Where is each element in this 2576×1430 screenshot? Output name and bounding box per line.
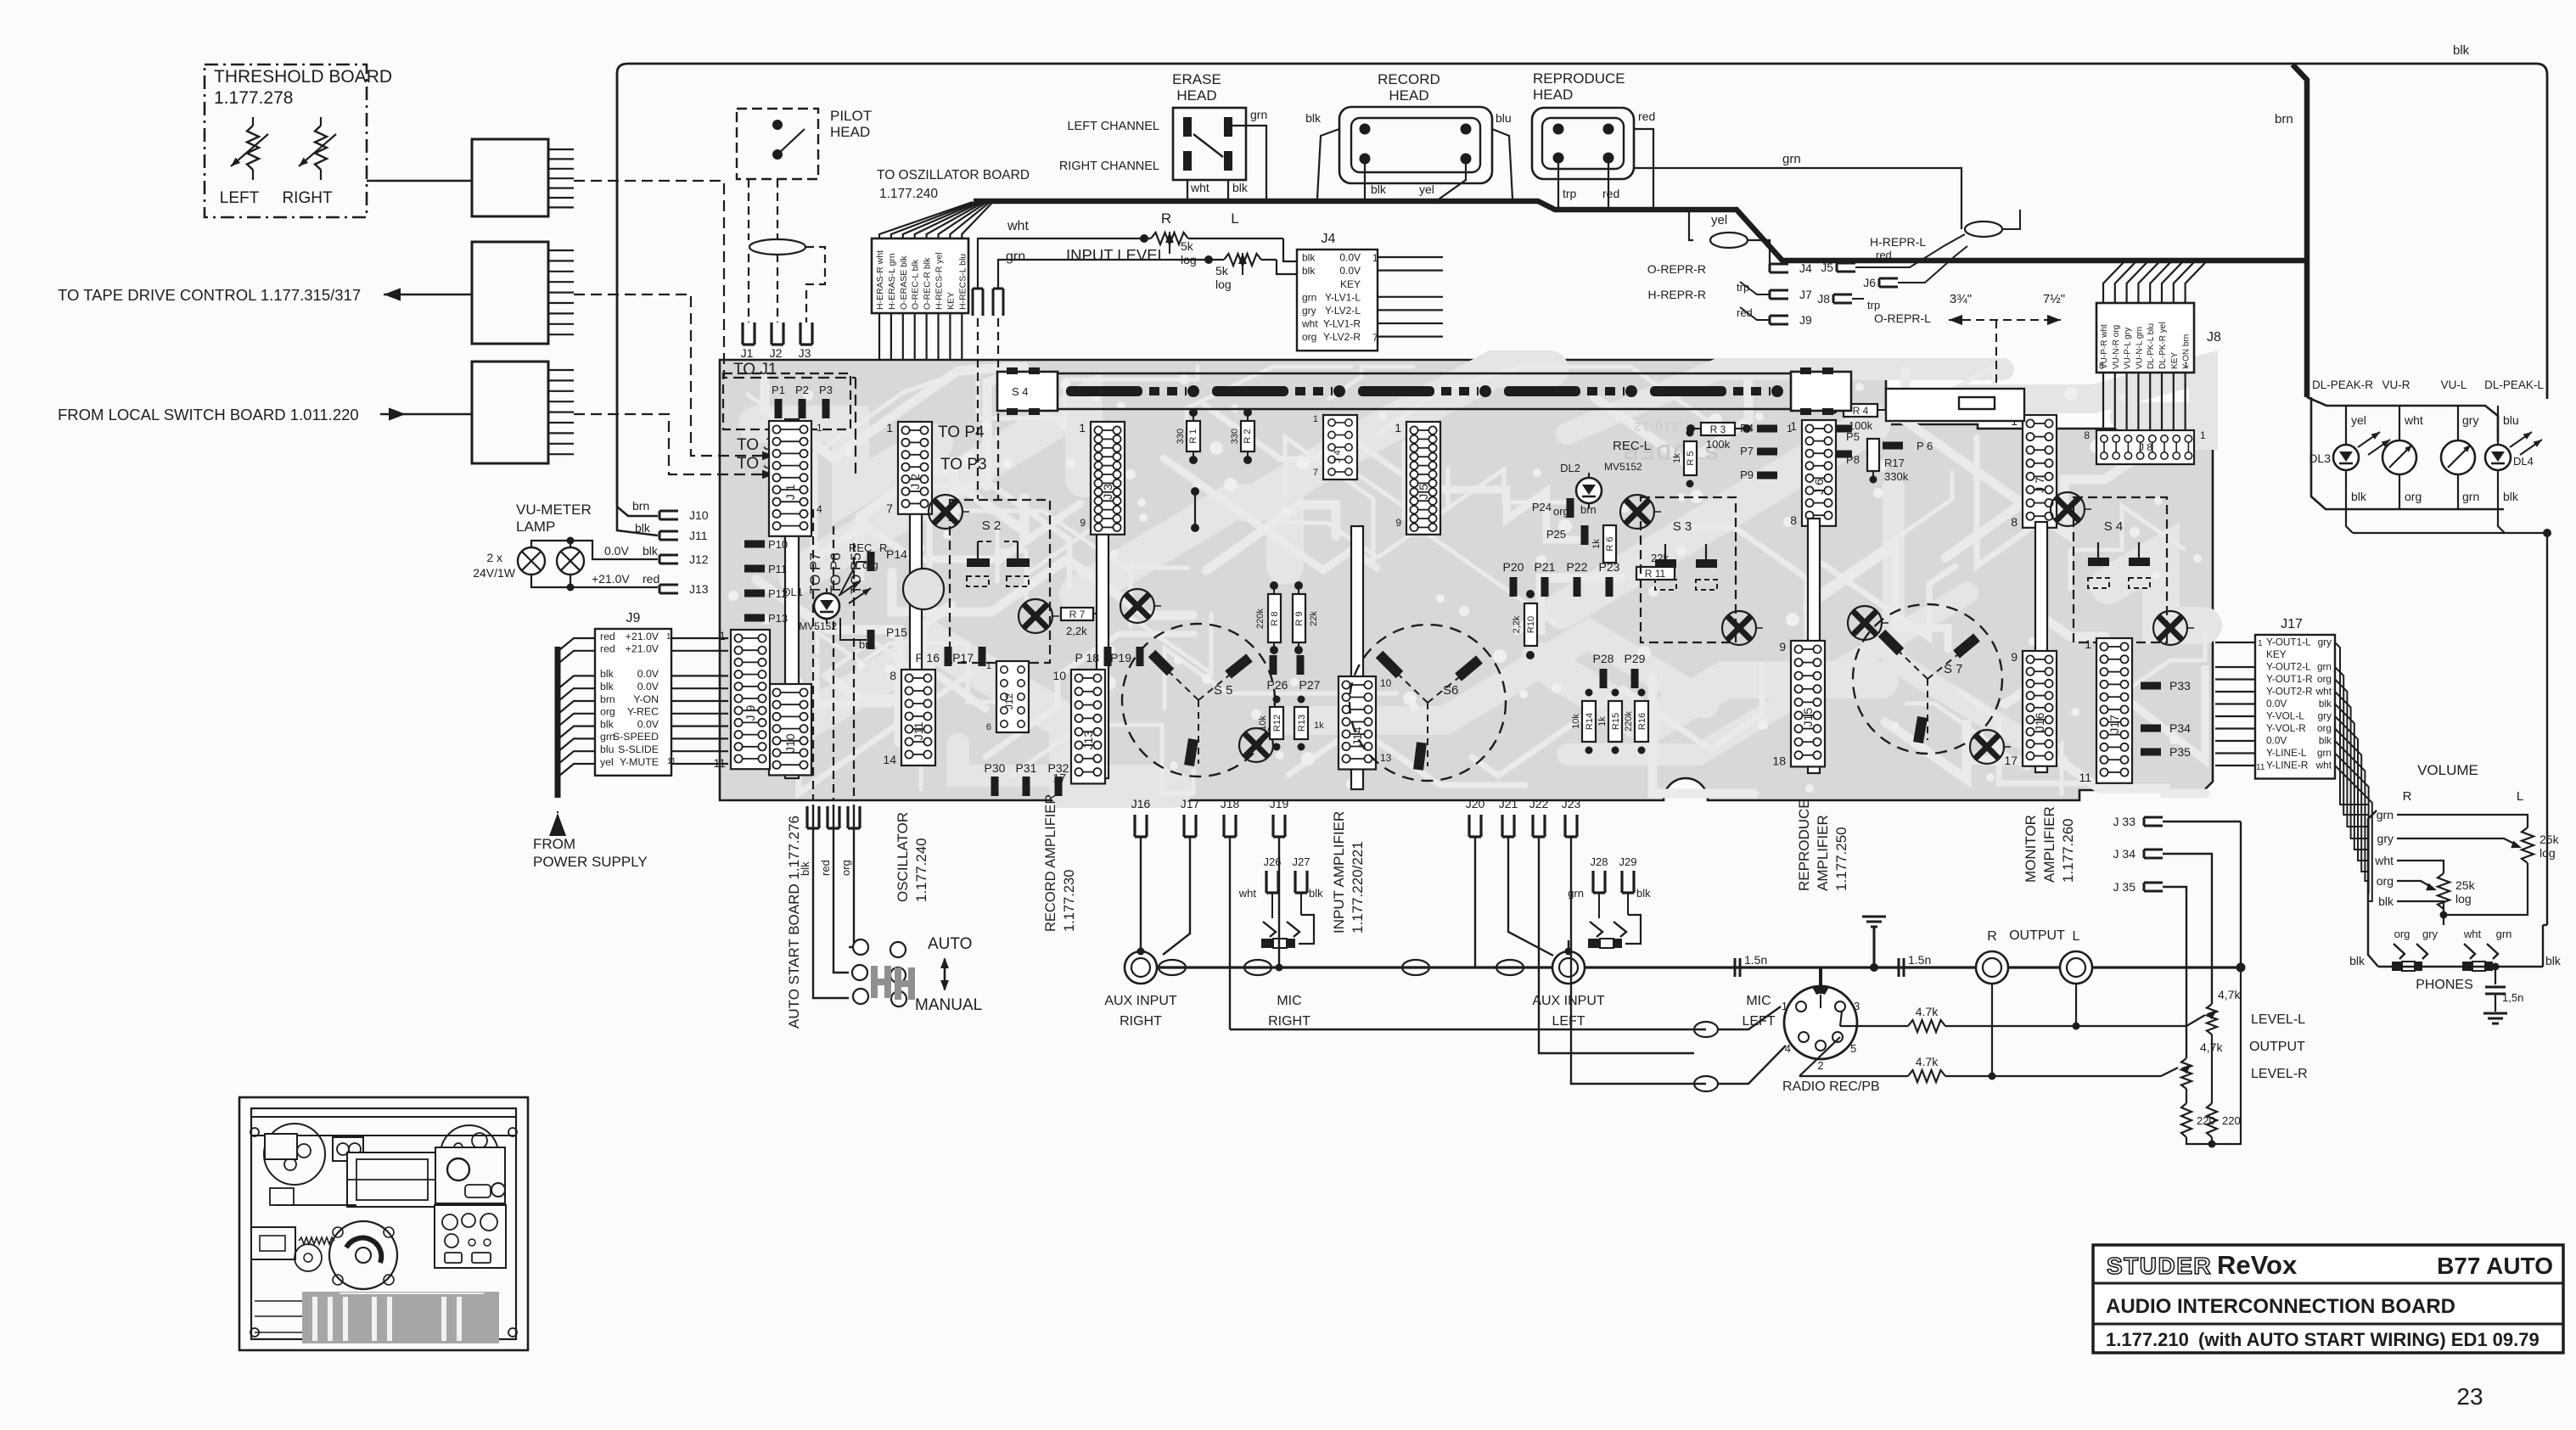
svg-text:H-RECS-R yel: H-RECS-R yel: [934, 252, 945, 310]
resistor R5: [1684, 441, 1697, 475]
svg-text:P30: P30: [985, 761, 1006, 775]
svg-text:red: red: [1737, 306, 1753, 319]
resistor 220 right: [2207, 1103, 2217, 1137]
svg-text:4.7k: 4.7k: [1916, 1005, 1939, 1018]
VU lamp left: [518, 547, 545, 575]
svg-text:J 33: J 33: [2113, 815, 2136, 828]
pad P15: [867, 630, 875, 649]
svg-text:MV5152: MV5152: [1604, 461, 1642, 473]
svg-text:Y-MUTE: Y-MUTE: [620, 756, 659, 768]
connector J14 strip: [1339, 676, 1376, 770]
LED DL3: [2345, 406, 2347, 444]
svg-text:RIGHT: RIGHT: [1268, 1014, 1310, 1029]
svg-text:J13: J13: [1081, 731, 1095, 750]
svg-text:P27: P27: [1299, 678, 1321, 692]
svg-text:REC-L: REC-L: [1613, 439, 1651, 453]
svg-text:J6: J6: [1863, 276, 1876, 289]
auto manual switch: [853, 939, 868, 955]
svg-text:org: org: [2394, 928, 2410, 940]
svg-text:H-ERAS-R wht: H-ERAS-R wht: [875, 250, 885, 310]
auto manual arrow: [944, 959, 946, 990]
screw monitor bottom: [2153, 611, 2187, 645]
stub J2: [772, 322, 783, 345]
svg-text:1: 1: [2085, 637, 2091, 651]
svg-text:LEVEL-R: LEVEL-R: [2251, 1067, 2308, 1081]
svg-text:blk: blk: [2349, 954, 2366, 967]
svg-text:VU-METER: VU-METER: [516, 502, 592, 518]
svg-text:P15: P15: [886, 625, 907, 639]
svg-text:1.177.278: 1.177.278: [214, 88, 293, 108]
THRESHOLD BOARD dash-dot box: [205, 64, 367, 217]
connector J4 dip: [1323, 415, 1357, 479]
svg-text:J 1: J 1: [783, 484, 797, 500]
svg-text:L: L: [1231, 210, 1238, 227]
connector J11 strip: [901, 670, 935, 765]
svg-text:LAMP: LAMP: [516, 519, 555, 535]
svg-text:1: 1: [1782, 1000, 1787, 1012]
jack AUX INPUT RIGHT: [1125, 951, 1157, 984]
svg-text:log: log: [2455, 892, 2472, 906]
meters frame wiring: [2307, 397, 2498, 441]
svg-text:1.177.210: 1.177.210: [2106, 1329, 2189, 1350]
svg-text:+21.0V: +21.0V: [626, 643, 659, 655]
svg-text:R 5: R 5: [1686, 451, 1696, 465]
dashed TO P4 line: [977, 318, 979, 499]
svg-text:1.177.220/221: 1.177.220/221: [1350, 841, 1366, 934]
svg-text:RIGHT: RIGHT: [1120, 1014, 1162, 1029]
svg-text:org: org: [2317, 673, 2332, 685]
svg-text:8: 8: [890, 669, 896, 682]
svg-text:VOLUME: VOLUME: [2417, 762, 2478, 778]
svg-text:O-REPR-L: O-REPR-L: [1874, 311, 1931, 325]
svg-text:AUTO START BOARD 1.177.276: AUTO START BOARD 1.177.276: [786, 816, 802, 1029]
svg-text:H-RECS-L blu: H-RECS-L blu: [957, 254, 968, 310]
inset right reel: [441, 1125, 498, 1183]
wires to radio connector: [1230, 1029, 1706, 1030]
svg-text:J 9: J 9: [744, 705, 757, 721]
svg-text:9: 9: [1080, 517, 1086, 529]
svg-text:P24: P24: [1532, 501, 1552, 513]
stub J12: [659, 555, 678, 564]
svg-text:MV5152: MV5152: [799, 620, 837, 632]
svg-text:LEVEL-L: LEVEL-L: [2251, 1012, 2305, 1027]
svg-text:J17: J17: [1181, 797, 1200, 810]
svg-text:5k: 5k: [1181, 239, 1194, 253]
svg-text:blk: blk: [2545, 954, 2562, 967]
wire J33 to output bus: [2163, 821, 2241, 822]
svg-text:log: log: [1215, 278, 1232, 291]
svg-text:+21.0V: +21.0V: [592, 572, 630, 586]
svg-text:INPUT LEVEL: INPUT LEVEL: [1066, 246, 1166, 264]
svg-text:S 5: S 5: [1214, 683, 1233, 698]
svg-text:J7: J7: [1799, 288, 1812, 301]
wire meters lower bus: [2353, 532, 2547, 534]
svg-text:P34: P34: [2169, 721, 2191, 735]
svg-text:5: 5: [1850, 1042, 1856, 1055]
dashed box S4 region: [2074, 497, 2167, 642]
svg-text:brn: brn: [600, 693, 615, 705]
svg-text:2: 2: [1817, 1059, 1823, 1072]
svg-text:HEAD: HEAD: [830, 124, 870, 140]
svg-text:J 35: J 35: [2113, 880, 2136, 894]
svg-text:TO J1: TO J1: [733, 361, 777, 379]
svg-text:S 3: S 3: [1673, 519, 1692, 534]
svg-text:(with AUTO START WIRING) ED1: (with AUTO START WIRING) ED1 09.79: [2198, 1329, 2540, 1350]
svg-text:O-ERASE blk: O-ERASE blk: [899, 255, 909, 310]
svg-text:Y-ON: Y-ON: [633, 693, 659, 705]
svg-text:0.0V: 0.0V: [637, 668, 659, 680]
bus to right corner: [2236, 963, 2246, 973]
svg-text:2 x: 2 x: [486, 551, 502, 564]
mechanical inset tape deck: [239, 1097, 528, 1350]
svg-text:O-REPR-R: O-REPR-R: [1647, 262, 1706, 276]
svg-text:P25: P25: [1546, 528, 1566, 541]
svg-text:J 4: J 4: [1333, 450, 1343, 463]
svg-text:P22: P22: [1567, 560, 1588, 574]
svg-text:J4: J4: [1799, 261, 1812, 275]
svg-text:J13: J13: [689, 582, 709, 596]
svg-text:grn: grn: [1250, 108, 1267, 121]
svg-text:R 3: R 3: [1710, 423, 1726, 435]
svg-text:R 6: R 6: [1605, 536, 1615, 551]
jumper wire under R1: [1191, 487, 1199, 496]
svg-text:J28: J28: [1591, 855, 1608, 868]
pad P13: [744, 614, 765, 622]
svg-text:HEAD: HEAD: [1533, 87, 1573, 103]
svg-text:blk: blk: [2453, 43, 2470, 58]
svg-text:0.0V: 0.0V: [2266, 698, 2287, 709]
stub J10: [659, 511, 678, 519]
svg-text:red: red: [600, 631, 615, 642]
svg-text:L: L: [2517, 789, 2523, 804]
svg-text:org: org: [1302, 331, 1316, 343]
ribbon column J5-J14: [1351, 526, 1363, 789]
svg-text:R 9: R 9: [1294, 611, 1305, 625]
svg-text:J17: J17: [2107, 715, 2121, 734]
svg-text:grn: grn: [2377, 808, 2394, 822]
svg-text:yel: yel: [1419, 182, 1434, 196]
svg-text:P 18: P 18: [1075, 651, 1099, 665]
svg-text:Y-VOL-R: Y-VOL-R: [2266, 722, 2306, 734]
svg-text:R16: R16: [1637, 713, 1647, 730]
svg-text:blk: blk: [2503, 490, 2519, 503]
svg-text:blk: blk: [600, 668, 615, 680]
dashed TO P3 line: [997, 318, 999, 499]
dashed box S2 region: [950, 500, 1050, 663]
svg-text:org: org: [2405, 490, 2422, 503]
meter VU-R: [2399, 406, 2400, 440]
svg-text:blk: blk: [799, 861, 811, 876]
connector J2 strip: [898, 422, 932, 514]
svg-text:J 7: J 7: [2033, 477, 2046, 493]
svg-text:S 4: S 4: [1012, 385, 1029, 398]
svg-text:gry: gry: [2318, 636, 2332, 648]
big hole oscillator: [903, 569, 944, 609]
inset right panel lower: [435, 1205, 506, 1268]
connector J1 strip: [785, 419, 799, 778]
connector J15 strip: [1791, 641, 1825, 766]
svg-text:VU-L: VU-L: [2441, 379, 2467, 391]
ribbon column J7-J16: [2035, 522, 2047, 772]
lamp wires: [531, 541, 658, 559]
svg-text:STUDER: STUDER: [2107, 1253, 2212, 1279]
svg-text:220: 220: [2222, 1114, 2241, 1127]
svg-text:11: 11: [2079, 771, 2091, 784]
svg-text:1: 1: [666, 632, 671, 642]
svg-text:J 5: J 5: [1417, 484, 1430, 500]
capacitor 1,5n phones: [2495, 967, 2496, 984]
inset head block: [333, 1137, 363, 1161]
svg-text:P19: P19: [1110, 651, 1131, 665]
svg-text:9: 9: [1395, 517, 1401, 529]
svg-text:P21: P21: [1535, 560, 1556, 574]
svg-text:KEY: KEY: [2266, 648, 2287, 660]
svg-text:7½": 7½": [2043, 292, 2065, 306]
svg-text:1: 1: [2200, 429, 2206, 441]
svg-text:J 8: J 8: [2139, 441, 2152, 453]
svg-text:R17: R17: [1884, 457, 1905, 469]
wires left stubs: [1740, 282, 1770, 294]
svg-text:17: 17: [1052, 771, 1066, 784]
svg-text:Y-LINE-R: Y-LINE-R: [2266, 760, 2308, 771]
pot volume R 25k: [2397, 861, 2444, 873]
ferrite beads on bus: [1159, 960, 1186, 975]
jack PHONES right: [2464, 944, 2498, 959]
svg-text:VU-N-L grn: VU-N-L grn: [2135, 327, 2144, 369]
wire heavy head cable bus: [974, 201, 2307, 261]
wire blk cable along top edge: [617, 64, 2547, 507]
connector J8 pcb block: [2096, 430, 2194, 464]
svg-text:J5: J5: [1821, 261, 1833, 274]
svg-text:gry: gry: [2422, 928, 2439, 940]
svg-text:J 2: J 2: [908, 474, 922, 490]
svg-text:FROM: FROM: [533, 836, 575, 852]
connector J3 strip: [1091, 422, 1125, 535]
resistors R8 R9: [1268, 594, 1281, 642]
svg-text:0.0V: 0.0V: [637, 681, 659, 693]
svg-text:org: org: [600, 706, 615, 718]
svg-text:RECORD AMPLIFIER: RECORD AMPLIFIER: [1043, 794, 1058, 932]
svg-text:blk: blk: [1371, 182, 1387, 196]
PILOT HEAD dashed box: [737, 109, 818, 179]
svg-text:11: 11: [2256, 763, 2265, 772]
svg-text:MANUAL: MANUAL: [915, 996, 982, 1014]
auto start wires blk red org: [813, 805, 849, 998]
svg-text:23: 23: [2456, 1383, 2483, 1410]
svg-text:AUDIO INTERCONNECTION BOARD: AUDIO INTERCONNECTION BOARD: [2106, 1295, 2455, 1318]
svg-text:blk: blk: [1302, 252, 1316, 264]
inset motor block: [347, 1152, 437, 1207]
svg-text:R 7: R 7: [1069, 608, 1086, 620]
svg-text:J16: J16: [1131, 797, 1151, 810]
svg-text:18: 18: [1772, 754, 1786, 767]
svg-text:blk: blk: [1302, 265, 1316, 277]
svg-text:TO TAPE DRIVE CONTROL 1.177.: TO TAPE DRIVE CONTROL 1.177.315/317: [58, 286, 361, 304]
svg-text:J11: J11: [912, 722, 925, 741]
svg-text:11: 11: [713, 756, 726, 770]
connector J7 strip: [2023, 415, 2057, 528]
inset pinch lever: [270, 1188, 294, 1205]
svg-text:Y-LV2-R: Y-LV2-R: [1323, 331, 1361, 343]
svg-text:220k: 220k: [1624, 711, 1634, 732]
svg-text:LEFT: LEFT: [220, 189, 260, 207]
svg-text:10k: 10k: [1258, 715, 1268, 731]
svg-text:REPRODUCE: REPRODUCE: [1533, 70, 1625, 87]
wire aux input right: [1140, 837, 1142, 951]
svg-text:4.7k: 4.7k: [1916, 1055, 1939, 1068]
svg-text:L: L: [2073, 929, 2080, 944]
stub J1: [743, 322, 755, 345]
svg-text:blk: blk: [635, 521, 651, 535]
photoresistor LEFT: [247, 126, 259, 170]
svg-text:S 4: S 4: [2104, 519, 2124, 534]
svg-text:1: 1: [817, 422, 822, 434]
wire aux input left: [1474, 837, 1476, 967]
svg-text:wht: wht: [1301, 318, 1318, 330]
wire J34: [2163, 854, 2212, 1004]
svg-text:J8: J8: [1817, 292, 1830, 306]
svg-text:22k: 22k: [1309, 611, 1319, 626]
svg-text:3¾": 3¾": [1950, 292, 1972, 306]
wire DIN pin5 to 4.7k lower: [1799, 1037, 1840, 1076]
svg-text:R14: R14: [1585, 713, 1595, 730]
svg-text:H-REPR-L: H-REPR-L: [1870, 235, 1926, 249]
svg-text:4,7k: 4,7k: [2218, 988, 2241, 1001]
ferrite bead reproduce right: [1965, 222, 2002, 237]
svg-text:P31: P31: [1016, 761, 1037, 775]
svg-text:4: 4: [817, 503, 822, 515]
dashed box S3 region: [1641, 497, 1736, 642]
connector J16 strip: [2023, 651, 2057, 766]
svg-text:R 11: R 11: [1645, 568, 1666, 580]
svg-text:KEY: KEY: [1340, 278, 1361, 290]
capacitor 1.5n right: [1899, 958, 1904, 977]
svg-text:24V/1W: 24V/1W: [473, 566, 516, 580]
svg-text:J16: J16: [2033, 712, 2046, 732]
svg-text:P26: P26: [1267, 678, 1288, 692]
svg-text:TO P4: TO P4: [938, 423, 985, 441]
jack OUTPUT R: [1976, 951, 2008, 984]
connector J10 strip: [769, 684, 811, 775]
stub J3: [800, 322, 812, 345]
svg-text:R13: R13: [1297, 715, 1307, 732]
svg-text:Y-LINE-L: Y-LINE-L: [2266, 747, 2307, 759]
svg-text:10: 10: [1380, 677, 1392, 689]
connector box to threshold board: [472, 139, 548, 216]
svg-text:brn: brn: [1580, 503, 1597, 516]
svg-text:R15: R15: [1611, 713, 1621, 730]
svg-text:J10: J10: [689, 508, 709, 522]
svg-text:blk: blk: [600, 718, 615, 730]
svg-text:7: 7: [1313, 468, 1318, 478]
svg-text:7: 7: [1372, 334, 1378, 344]
svg-text:brn: brn: [2275, 112, 2293, 126]
svg-text:red: red: [1602, 187, 1619, 200]
J4 output wires: [1378, 256, 1443, 258]
svg-text:Y-LV1-R: Y-LV1-R: [1323, 318, 1361, 330]
inset spring: [299, 1237, 334, 1244]
svg-text:KEY: KEY: [946, 292, 956, 310]
svg-text:DL-PK-L blu: DL-PK-L blu: [2147, 323, 2156, 369]
screw S3 top: [1620, 495, 1654, 529]
slider switch S4 right block: [1791, 372, 1851, 411]
svg-text:0.0V: 0.0V: [1339, 252, 1361, 264]
inset capstan motor: [329, 1221, 397, 1289]
svg-text:DL-PEAK-R: DL-PEAK-R: [2312, 379, 2373, 391]
svg-text:J1: J1: [741, 346, 754, 360]
DIN connector RADIO REC/PB: [1819, 967, 1822, 988]
svg-text:MONITOR: MONITOR: [2023, 815, 2039, 883]
svg-text:blk: blk: [600, 681, 615, 693]
pad P33: [2141, 682, 2161, 690]
resistor R10: [1524, 603, 1537, 646]
svg-text:P13: P13: [768, 612, 788, 625]
svg-text:330k: 330k: [1884, 470, 1909, 483]
svg-text:R10: R10: [1526, 616, 1536, 633]
svg-text:1: 1: [886, 421, 893, 435]
pad P12: [744, 590, 765, 597]
svg-text:LEFT CHANNEL: LEFT CHANNEL: [1067, 120, 1159, 133]
LED DL4: [2497, 406, 2499, 444]
J8 cable wires top: [2103, 261, 2125, 303]
svg-text:grn: grn: [2317, 661, 2332, 673]
wire J35: [2163, 887, 2186, 1058]
svg-text:INPUT AMPLIFIER: INPUT AMPLIFIER: [1331, 811, 1347, 934]
svg-text:OUTPUT: OUTPUT: [2249, 1040, 2305, 1054]
meter VU-L: [2457, 406, 2459, 440]
ground symbol above DIN: [1873, 927, 1876, 967]
pot LEVEL-L 4.7k: [2186, 1015, 2205, 1026]
svg-text:DL1: DL1: [783, 586, 803, 598]
connector J5 strip: [1406, 422, 1440, 535]
svg-text:J17: J17: [2281, 617, 2303, 631]
svg-text:HEAD: HEAD: [1176, 87, 1216, 104]
svg-text:J22: J22: [1529, 797, 1549, 810]
svg-text:grn: grn: [1006, 250, 1025, 264]
svg-text:S-SLIDE: S-SLIDE: [618, 743, 659, 755]
svg-text:grn: grn: [2462, 490, 2479, 503]
pad P35: [2141, 749, 2161, 756]
svg-text:grn: grn: [2317, 747, 2332, 759]
svg-text:330: 330: [1176, 429, 1186, 444]
svg-text:trp: trp: [1563, 187, 1577, 200]
svg-text:J2: J2: [770, 346, 783, 360]
svg-text:8: 8: [1790, 513, 1797, 527]
svg-text:100k: 100k: [1706, 438, 1731, 451]
arrow TO TAPE DRIVE CONTROL: [384, 294, 472, 296]
socket pins wht grn: [973, 289, 983, 316]
connector J12 dip: [996, 661, 1029, 732]
svg-text:blk: blk: [2378, 894, 2394, 908]
svg-text:MIC: MIC: [1277, 994, 1301, 1008]
svg-text:trp: trp: [1867, 299, 1880, 311]
resistor R3: [1686, 424, 1695, 433]
svg-text:2,2k: 2,2k: [1066, 625, 1087, 637]
svg-text:P20: P20: [1503, 560, 1524, 574]
rotary switch S7: [1853, 604, 2002, 754]
connector box from local switch board: [472, 362, 548, 463]
svg-text:MIC: MIC: [1746, 994, 1771, 1008]
svg-text:8: 8: [2084, 429, 2090, 441]
svg-text:blu: blu: [2503, 413, 2519, 427]
bottom rail: [2186, 967, 2241, 1144]
wire thick from power supply: [555, 647, 561, 798]
svg-text:J 34: J 34: [2113, 847, 2136, 861]
connector J17 pcb strip: [2096, 638, 2132, 783]
svg-text:7: 7: [886, 502, 893, 515]
svg-text:grn: grn: [1782, 152, 1801, 166]
PCB ground plane patches: [757, 369, 2203, 789]
